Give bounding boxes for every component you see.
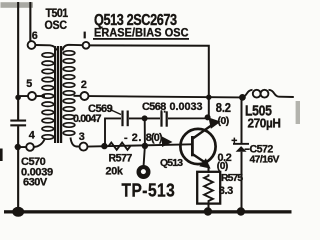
wire: winding bottom to pin4 bbox=[34, 140, 45, 148]
svg-text:OSC: OSC bbox=[45, 20, 68, 33]
node: junction dot between C569 and C568 bbox=[142, 115, 148, 121]
wire: C572 branch vertical top bbox=[241, 97, 243, 143]
svg-text:T501: T501 bbox=[46, 8, 68, 21]
transistor Q513 emitter line bbox=[193, 154, 207, 164]
transformer T501 primary winding (left column) bbox=[42, 53, 54, 139]
terminal pin 4 bbox=[26, 143, 34, 151]
svg-text:C572: C572 bbox=[250, 143, 274, 155]
transistor Q513 collector arrow bbox=[208, 117, 220, 128]
svg-text:(0): (0) bbox=[217, 161, 228, 172]
svg-text:ERASE/BIAS OSC: ERASE/BIAS OSC bbox=[94, 27, 189, 40]
bottom ground bus bbox=[4, 210, 292, 213]
terminal pin 5 bbox=[28, 92, 36, 100]
pin label 1 bbox=[84, 32, 86, 39]
node: junction dot base wire bbox=[142, 143, 148, 149]
svg-text:6: 6 bbox=[32, 30, 38, 42]
node: junction dot left bus / pin4 wire bbox=[15, 144, 21, 150]
wire: C572 to bottom bus bbox=[241, 152, 243, 212]
node: junction small dot collector vertical crossing bus bbox=[206, 95, 211, 100]
svg-text:Q513: Q513 bbox=[160, 158, 183, 169]
svg-text:2: 2 bbox=[81, 79, 87, 91]
scan artifact gray bar right edge bbox=[296, 101, 300, 124]
transformer T501 core bbox=[54, 46, 62, 143]
wire: winding tap to pin2 bbox=[74, 95, 81, 97]
node: junction dot bus R575 bbox=[204, 207, 212, 215]
test point TP-513 terminal bbox=[137, 165, 151, 179]
svg-text:8.2: 8.2 bbox=[216, 100, 231, 115]
transistor Q513 collector line bbox=[193, 124, 213, 138]
svg-text:270µH: 270µH bbox=[248, 116, 281, 131]
svg-text:5: 5 bbox=[26, 78, 32, 90]
svg-text:R577: R577 bbox=[109, 153, 133, 165]
terminal pin 3 bbox=[80, 143, 88, 151]
capacitor C572 bottom plate triangle bbox=[236, 146, 247, 152]
node: junction dot bus C572 bbox=[237, 207, 245, 215]
transistor Q513 emitter arrow bbox=[199, 158, 210, 168]
wire: vertical drop to pin 6 bbox=[29, 2, 31, 41]
svg-text:C568: C568 bbox=[142, 101, 166, 113]
capacitor C568 plates bbox=[160, 111, 167, 126]
leader ticks C568 bbox=[161, 110, 163, 112]
node: junction dot bus left bbox=[12, 207, 24, 217]
wire: pin2 bus to L505 junction bbox=[89, 96, 243, 97]
wire: pin5 to left bus bbox=[20, 95, 29, 97]
resistor R577 zigzag bbox=[109, 143, 131, 150]
leader line C569 bbox=[110, 110, 121, 115]
svg-text:3.3: 3.3 bbox=[219, 185, 233, 197]
capacitor C572 plus mark bbox=[232, 138, 238, 144]
wire: emitter stub to R575 bbox=[208, 166, 210, 174]
terminal pin 1 bbox=[83, 42, 90, 49]
wire: pin4 to left bus bbox=[19, 146, 27, 148]
resistor R575 zigzag bbox=[204, 174, 213, 202]
wire: cap chain horizontal bbox=[104, 115, 209, 119]
transformer T501 secondary winding (right column) bbox=[63, 51, 75, 135]
scan artifact gray bar top-left bbox=[1, 2, 34, 8]
node: junction dot bus / C572 branch bbox=[239, 94, 246, 101]
svg-text:R575: R575 bbox=[221, 173, 243, 184]
svg-text:- 2.: - 2. bbox=[124, 132, 142, 144]
wire: R575 to bottom bus bbox=[208, 204, 210, 212]
leader dash C572 bbox=[245, 148, 250, 150]
inductor L505 coil bbox=[243, 90, 294, 98]
svg-text:630V: 630V bbox=[23, 176, 48, 188]
svg-text:3: 3 bbox=[79, 131, 85, 143]
wire: left vertical bus x=18 (C570 to bottom bus) bbox=[17, 126, 19, 212]
svg-text:0.0033: 0.0033 bbox=[170, 101, 203, 113]
svg-text:4: 4 bbox=[29, 130, 35, 142]
capacitor C572 top plate bbox=[233, 143, 249, 145]
wire: winding bottom to pin3 bbox=[71, 138, 80, 147]
wire: base node vertical (cap chain to base wire to TP) bbox=[144, 118, 145, 165]
wire: cap chain left drop to pin3 wire bbox=[104, 118, 106, 144]
transistor Q513 body circle bbox=[180, 129, 215, 164]
wire: winding top to pin1 bbox=[63, 45, 83, 51]
resistor R575 box bbox=[197, 172, 220, 204]
capacitor C569 plates bbox=[121, 111, 128, 127]
capacitor C570 symbol plates bbox=[10, 120, 26, 127]
wire: pin3 to base node bbox=[88, 144, 192, 146]
svg-text:TP-513: TP-513 bbox=[122, 180, 176, 200]
wire: pin5 to winding tap bbox=[36, 95, 45, 97]
node: junction dot R577 wire / cap drop bbox=[101, 143, 107, 149]
base arrow into Q513 bbox=[162, 137, 173, 148]
svg-text:20k: 20k bbox=[106, 165, 124, 177]
svg-text:0.0047: 0.0047 bbox=[73, 113, 102, 125]
underline bbox=[93, 38, 189, 40]
terminal pin 2 bbox=[81, 92, 89, 100]
wire: left vertical bus x=18 (top to C570) bbox=[17, 2, 19, 120]
transistor Q513 base bar bbox=[191, 136, 194, 156]
node: junction dot collector / cap chain bbox=[205, 114, 211, 120]
node: junction dot left bus / pin5 wire bbox=[15, 95, 21, 101]
svg-text:47/16V: 47/16V bbox=[250, 155, 280, 166]
svg-text:(0): (0) bbox=[218, 116, 229, 127]
wire: pin1 right then down to collector node bbox=[90, 45, 209, 116]
scan artifact black bar left edge bbox=[0, 149, 3, 162]
wire: pin6 to winding top bbox=[36, 45, 57, 51]
terminal pin 6 bbox=[28, 41, 36, 49]
svg-text:8(0): 8(0) bbox=[146, 132, 163, 144]
